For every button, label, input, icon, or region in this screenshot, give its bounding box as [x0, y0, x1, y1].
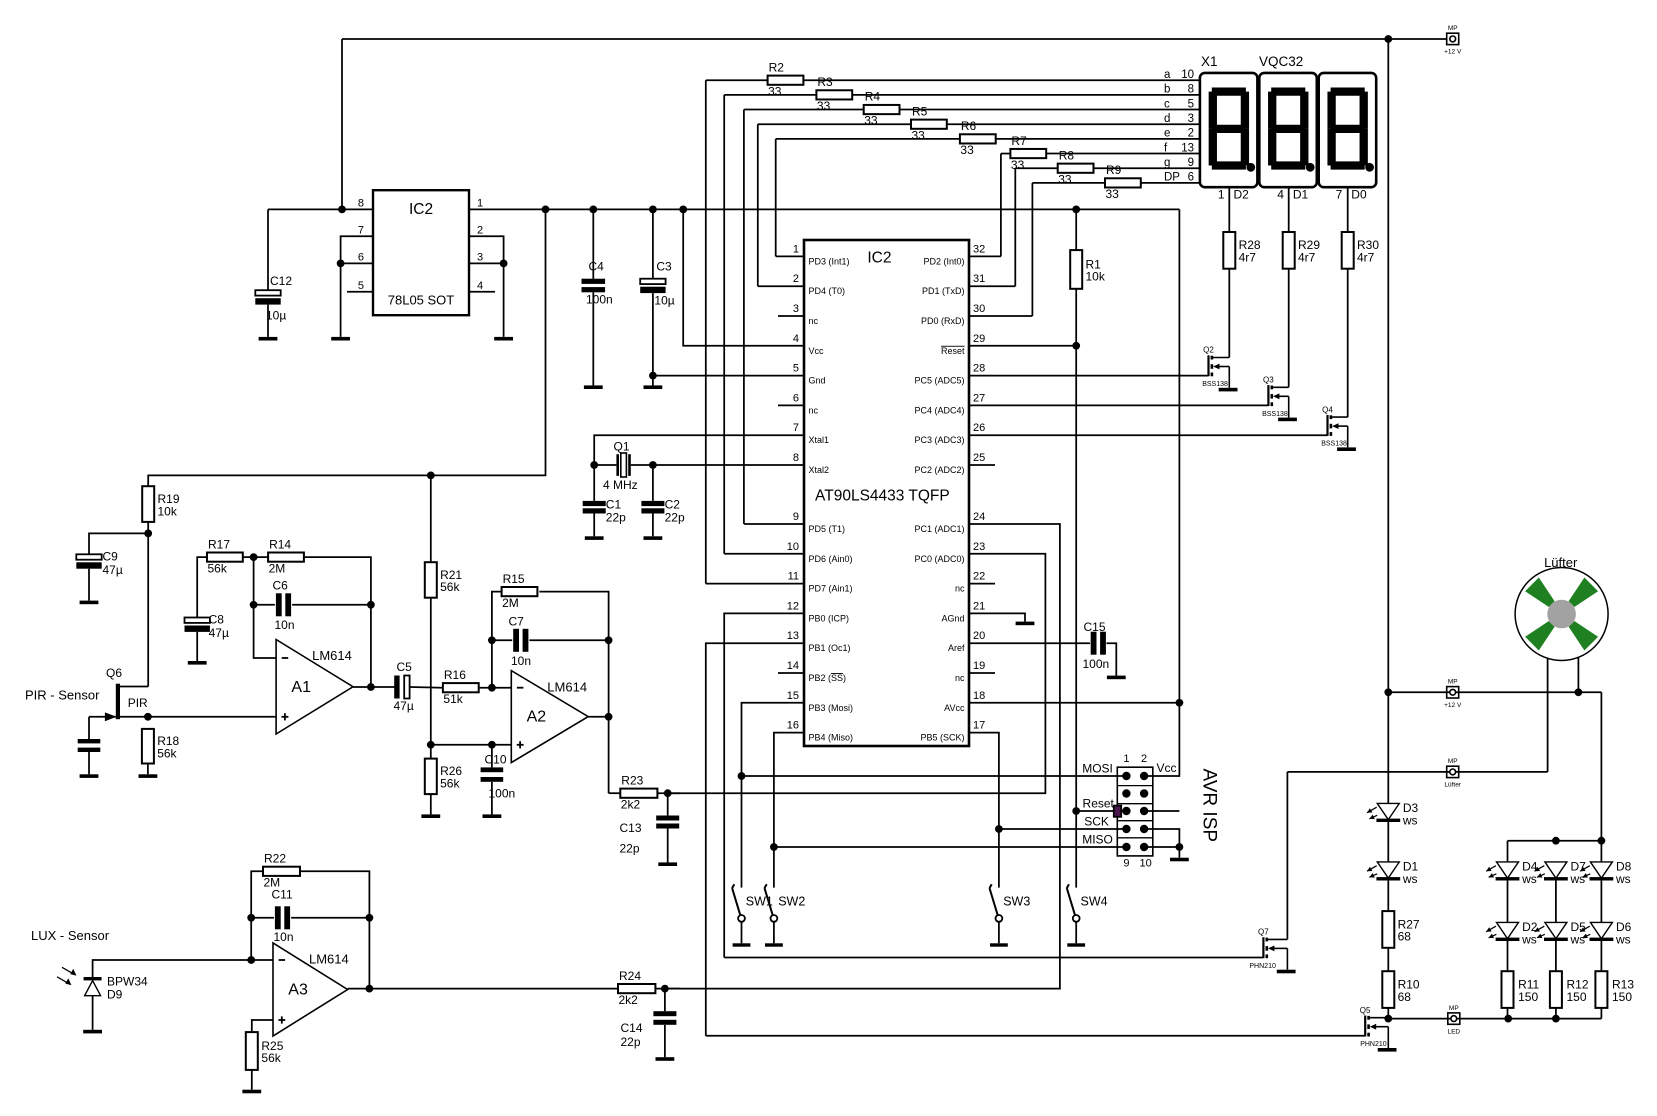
junction +12V bus / fan rail	[1384, 688, 1392, 696]
junction C7 left	[488, 636, 496, 644]
svg-text:PD6 (Ain0): PD6 (Ain0)	[809, 554, 853, 564]
svg-text:PB4 (Miso): PB4 (Miso)	[809, 733, 854, 743]
capacitor C1	[593, 465, 595, 501]
power marker MP +12 V (top right)	[1447, 33, 1459, 44]
ground C15	[1107, 676, 1126, 680]
svg-text:PHN210: PHN210	[1360, 1041, 1387, 1048]
svg-text:nc: nc	[809, 316, 819, 326]
resistor R18	[142, 729, 154, 764]
wire IC pin 27 PC4 to Q3 gate	[969, 404, 1268, 406]
svg-text:C13: C13	[620, 821, 642, 835]
diode D1	[1377, 862, 1399, 878]
transistor Q4 BSS138	[1326, 415, 1328, 436]
microcontroller IC2 AT90LS4433	[804, 240, 969, 746]
svg-text:7: 7	[793, 422, 799, 434]
resistor R30	[1342, 232, 1354, 269]
svg-text:ws: ws	[1402, 872, 1418, 886]
wire IC pin 28 PC5 to Q2 gate	[969, 375, 1209, 377]
wire Q6 source to A1 +	[118, 716, 276, 718]
junction R17/R14	[250, 553, 258, 561]
svg-text:17: 17	[973, 720, 985, 732]
wire Lüfter drive line	[1287, 771, 1547, 773]
svg-text:4: 4	[1277, 187, 1284, 201]
wire D4 anode stem	[1507, 841, 1509, 862]
svg-text:22p: 22p	[665, 511, 685, 525]
junction +5V rail to lower rail feed	[542, 206, 550, 214]
svg-text:C2: C2	[665, 497, 681, 511]
svg-text:PIR - Sensor: PIR - Sensor	[25, 687, 100, 702]
svg-text:LM614: LM614	[309, 952, 349, 967]
wire IC pin 6 nc stub	[778, 404, 804, 406]
svg-text:10: 10	[1181, 69, 1194, 81]
wire R22 feedback right	[300, 871, 369, 988]
svg-text:3: 3	[477, 252, 483, 264]
junction SCK on PB5 bus	[995, 825, 1003, 833]
wire IC pin 19 nc stub	[969, 672, 995, 674]
power marker MP LED	[1448, 1013, 1460, 1024]
wire ISP Vcc to +5V	[1144, 209, 1179, 776]
ground R26	[421, 814, 440, 818]
svg-text:C14: C14	[621, 1021, 643, 1035]
svg-text:Vcc: Vcc	[809, 346, 825, 356]
transistor Q3 BSS138	[1267, 385, 1269, 406]
resistor R25	[246, 1032, 258, 1070]
wire IC pin 10 PD6 to R3 bus	[724, 553, 804, 555]
junction C6 left	[250, 601, 258, 609]
svg-text:6: 6	[1188, 172, 1194, 184]
svg-text:4 MHz: 4 MHz	[603, 478, 638, 492]
svg-text:28: 28	[973, 363, 985, 375]
wire Q5 drain stub	[1387, 1017, 1389, 1020]
wire R6 to display	[996, 138, 1200, 140]
switch SW1	[732, 888, 740, 915]
svg-text:Q2: Q2	[1203, 346, 1214, 355]
svg-text:56k: 56k	[208, 561, 228, 575]
svg-text:5: 5	[1188, 98, 1194, 110]
wire R29 to Q3 drain	[1288, 269, 1290, 388]
svg-text:VQC32: VQC32	[1259, 54, 1303, 69]
svg-text:PD3 (Int1): PD3 (Int1)	[809, 256, 850, 266]
svg-text:Reset: Reset	[1083, 796, 1115, 810]
svg-text:PHN210: PHN210	[1249, 963, 1276, 970]
resistor R4	[864, 105, 900, 114]
svg-text:R17: R17	[208, 537, 230, 551]
junction MISO on PB4 bus	[770, 843, 778, 851]
wire reset mark to pin	[1121, 810, 1126, 812]
wire R28 to Q2 drain	[1228, 269, 1230, 358]
wire R5 left to bus	[758, 123, 911, 125]
svg-text:PD5 (T1): PD5 (T1)	[809, 524, 846, 534]
wire Xtal2 to crystal	[653, 464, 804, 466]
svg-text:56k: 56k	[261, 1051, 281, 1065]
svg-text:Gnd: Gnd	[809, 376, 826, 386]
diode D8	[1590, 862, 1612, 878]
svg-text:8: 8	[793, 452, 799, 464]
op-amp A2	[511, 671, 588, 763]
svg-text:ws: ws	[1615, 872, 1631, 886]
display digit D1	[1259, 73, 1317, 187]
junction regulator pins 2/3 ground	[500, 260, 508, 268]
svg-text:10n: 10n	[275, 618, 295, 632]
svg-text:10k: 10k	[1086, 270, 1106, 284]
capacitor C6	[276, 593, 282, 616]
wire C11 right	[291, 917, 369, 919]
svg-text:22p: 22p	[621, 1035, 641, 1049]
wire R24 right	[655, 988, 680, 990]
wire +12V right bus	[1387, 39, 1389, 803]
svg-text:6: 6	[358, 252, 364, 264]
svg-text:13: 13	[787, 630, 799, 642]
junction fan rail / fan lead	[1575, 688, 1583, 696]
wire IC pin 16 PB4 to SW2	[774, 733, 804, 888]
capacitor C8	[185, 618, 210, 623]
resistor R29	[1283, 232, 1295, 269]
wire regulator pin 3	[469, 262, 504, 264]
svg-text:19: 19	[973, 660, 985, 672]
svg-text:C15: C15	[1084, 620, 1106, 634]
svg-text:4r7: 4r7	[1357, 251, 1375, 265]
wire fan +12V rail	[1388, 691, 1601, 693]
wire IC pin 9 PD5 to R4 bus	[744, 523, 804, 525]
svg-text:PC2 (ADC2): PC2 (ADC2)	[914, 465, 964, 475]
svg-text:R5: R5	[912, 104, 928, 118]
ground PIR filter cap	[80, 774, 99, 778]
wire A3 output	[348, 988, 618, 990]
diode D2	[1497, 922, 1519, 938]
wire IC pin 18 AVcc	[969, 702, 1179, 704]
wire regulator input from +12V rail	[341, 39, 343, 209]
svg-text:X1: X1	[1201, 54, 1218, 69]
svg-text:Q1: Q1	[614, 440, 630, 454]
svg-text:e: e	[1164, 128, 1170, 140]
svg-text:R14: R14	[269, 537, 291, 551]
ground ISP	[1170, 858, 1189, 862]
junction anode rail D8	[1598, 837, 1606, 845]
junction C7 right	[605, 636, 613, 644]
wire IC pin 3 nc stub	[778, 315, 804, 317]
wire A3 non-inverting to R25	[252, 1020, 273, 1032]
resistor R1	[1070, 250, 1082, 289]
svg-text:A2: A2	[527, 709, 547, 726]
transistor Q7 PHN210	[1262, 937, 1264, 958]
svg-text:LUX - Sensor: LUX - Sensor	[31, 928, 110, 943]
svg-text:A1: A1	[291, 679, 311, 696]
wire D8 to D6	[1600, 879, 1602, 923]
svg-text:8: 8	[358, 198, 364, 210]
resistor R13	[1595, 971, 1607, 1008]
svg-text:PC1 (ADC1): PC1 (ADC1)	[914, 524, 964, 534]
switch SW3	[990, 888, 998, 915]
ground C3	[644, 385, 663, 389]
switch SW2	[765, 888, 773, 915]
resistor R10	[1382, 971, 1394, 1008]
wire IC pin 13 PB1 bus down	[706, 643, 804, 1036]
ground D9	[83, 1030, 102, 1034]
power marker MP +12 V (fan rail)	[1447, 687, 1459, 698]
svg-text:78L05 SOT: 78L05 SOT	[388, 292, 455, 307]
wire R21 to R26	[430, 598, 432, 759]
svg-text:9: 9	[1188, 157, 1194, 169]
wire C6 right	[292, 604, 371, 606]
wire +5V rail from regulator pin 1	[469, 208, 1179, 210]
resistor R5	[911, 120, 947, 129]
svg-text:25: 25	[973, 452, 985, 464]
svg-text:C1: C1	[606, 497, 622, 511]
junction R21/R26/A2+	[427, 741, 435, 749]
svg-text:24: 24	[973, 511, 985, 523]
svg-text:MP: MP	[1449, 1005, 1459, 1012]
svg-text:1: 1	[1218, 187, 1225, 201]
wire R3 bus vertical	[723, 95, 725, 554]
capacitor C9	[76, 554, 101, 559]
wire LED cathode rail	[1388, 1018, 1601, 1020]
junction MOSI on PB3 bus	[738, 772, 746, 780]
wire LED anode rail	[1508, 840, 1602, 842]
wire R21 top	[430, 475, 432, 562]
svg-text:150: 150	[1612, 990, 1632, 1004]
svg-text:R4: R4	[865, 90, 881, 104]
wire regulator pin 7 to ground	[341, 236, 373, 337]
svg-text:a: a	[1164, 69, 1171, 81]
svg-text:PB1 (Oc1): PB1 (Oc1)	[809, 643, 851, 653]
svg-text:PB5 (SCK): PB5 (SCK)	[920, 733, 964, 743]
svg-text:ws: ws	[1521, 932, 1537, 946]
junction +5V rail at C4	[589, 206, 597, 214]
svg-text:Lüfter: Lüfter	[1544, 555, 1578, 570]
svg-text:C9: C9	[103, 549, 119, 563]
junction Q5 drain / LED rail	[1384, 1015, 1392, 1023]
svg-text:Vcc: Vcc	[1157, 761, 1177, 775]
svg-text:68: 68	[1398, 930, 1412, 944]
svg-text:SW2: SW2	[778, 895, 805, 909]
svg-text:1: 1	[1123, 753, 1129, 765]
capacitor C15	[1091, 632, 1097, 655]
svg-text:PD4 (T0): PD4 (T0)	[809, 286, 846, 296]
svg-text:AGnd: AGnd	[941, 613, 964, 623]
capacitor C11	[275, 906, 281, 929]
svg-text:10n: 10n	[274, 930, 294, 944]
svg-text:Aref: Aref	[948, 643, 965, 653]
junction ISP ground tee	[1176, 843, 1184, 851]
svg-text:4: 4	[793, 333, 799, 345]
junction analog rail at R21	[427, 472, 435, 480]
wire D1 to R27	[1387, 879, 1389, 911]
svg-text:R2: R2	[769, 60, 785, 74]
diode D7	[1545, 862, 1567, 878]
junction regulator input node	[338, 206, 346, 214]
svg-text:47µ: 47µ	[209, 626, 229, 640]
svg-text:DP: DP	[1164, 172, 1180, 184]
svg-text:Q6: Q6	[106, 666, 122, 680]
wire R1 top	[1075, 209, 1077, 250]
wire R15 feedback left	[492, 592, 502, 688]
junction top rail / right +12V bus	[1384, 35, 1392, 43]
wire R8 to display	[1094, 167, 1200, 169]
photodiode D9 BPW34	[84, 977, 102, 980]
ground regulator right	[494, 337, 513, 341]
svg-text:MP: MP	[1448, 25, 1458, 32]
capacitor C13	[667, 793, 669, 815]
ground R18	[139, 774, 158, 778]
wire R9 left to bus	[1032, 182, 1105, 184]
svg-text:Reset: Reset	[941, 346, 965, 356]
transistor Q6 PIR	[116, 684, 120, 720]
svg-text:29: 29	[973, 333, 985, 345]
ground AGnd	[1016, 622, 1035, 626]
wire C11 left	[251, 917, 274, 919]
wire R6 left to bus	[776, 138, 960, 140]
display digit D2	[1200, 73, 1258, 187]
crystal Q1	[594, 464, 616, 466]
svg-text:+12 V: +12 V	[1444, 702, 1462, 709]
svg-text:R6: R6	[961, 119, 977, 133]
wire display common D0	[1347, 187, 1349, 232]
wire R26 bottom	[430, 794, 432, 814]
junction LED rail R11	[1504, 1015, 1512, 1023]
ground C8	[188, 661, 207, 665]
resistor R7	[1010, 149, 1046, 158]
svg-text:C10: C10	[485, 752, 507, 766]
wire R16 right	[479, 687, 512, 689]
wire IC pin 23 PC0 to R23 node	[668, 554, 1046, 793]
wire R4 bus vertical	[743, 110, 745, 524]
wire R7 left to bus	[1001, 153, 1011, 155]
svg-text:Q3: Q3	[1263, 376, 1274, 385]
ground C10	[483, 814, 502, 818]
wire PIR cap branch	[88, 717, 90, 739]
wire IC pin 22 nc stub	[969, 583, 995, 585]
svg-text:PC4 (ADC4): PC4 (ADC4)	[914, 405, 964, 415]
svg-text:11: 11	[788, 571, 799, 583]
resistor R14	[268, 553, 304, 562]
svg-text:26: 26	[973, 422, 985, 434]
wire R8 left to bus	[1015, 167, 1057, 169]
svg-text:2: 2	[1188, 128, 1194, 140]
svg-text:14: 14	[787, 660, 799, 672]
junction C11 left	[247, 914, 255, 922]
resistor R21	[425, 562, 437, 598]
svg-text:PC5 (ADC5): PC5 (ADC5)	[914, 376, 964, 386]
svg-text:3: 3	[793, 303, 799, 315]
svg-text:2M: 2M	[502, 596, 519, 610]
svg-text:4: 4	[477, 280, 483, 292]
junction AVcc / +5V bus	[1176, 699, 1184, 707]
wire R11 to LED rail	[1507, 1008, 1509, 1019]
resistor R22	[263, 867, 300, 876]
svg-text:21: 21	[973, 600, 985, 612]
svg-text:10k: 10k	[158, 504, 178, 518]
svg-text:33: 33	[1106, 187, 1120, 201]
svg-text:MP: MP	[1448, 679, 1458, 686]
wire regulator pin 4 stub	[469, 291, 495, 293]
capacitor C5	[394, 676, 399, 699]
wire ISP reset right stub	[1144, 810, 1179, 812]
wire Xtal1 to crystal	[594, 435, 804, 465]
ground C2	[644, 536, 663, 540]
wire R22 feedback left	[251, 871, 263, 960]
svg-text:c: c	[1164, 98, 1170, 110]
junction A3 output feedback	[366, 985, 374, 993]
svg-text:A3: A3	[288, 982, 308, 999]
svg-text:PIR: PIR	[128, 696, 148, 710]
wire IC pin 1 PD3	[776, 255, 804, 257]
svg-text:2: 2	[793, 273, 799, 285]
resistor R11	[1502, 971, 1514, 1008]
wire +12V top rail	[342, 38, 1447, 40]
svg-text:15: 15	[787, 690, 799, 702]
svg-text:33: 33	[912, 128, 926, 142]
wire R2 to display	[803, 79, 1200, 81]
svg-text:1: 1	[477, 198, 483, 210]
wire R5 to display	[947, 123, 1200, 125]
svg-text:MOSI: MOSI	[1082, 761, 1113, 775]
svg-text:b: b	[1164, 84, 1170, 96]
svg-text:PB2 (SS): PB2 (SS)	[809, 673, 847, 683]
ground R25	[242, 1090, 261, 1094]
svg-text:32: 32	[973, 243, 985, 255]
svg-text:6: 6	[793, 392, 799, 404]
svg-text:Q4: Q4	[1322, 405, 1333, 414]
fan Lüfter	[1515, 568, 1608, 661]
junction R16 / A2 inverting	[488, 684, 496, 692]
resistor R26	[425, 759, 437, 795]
svg-text:R7: R7	[1011, 134, 1027, 148]
junction regulator pins 6/7 ground	[337, 260, 345, 268]
wire D2 to R11	[1507, 939, 1509, 971]
svg-text:9: 9	[793, 511, 799, 523]
wire regulator pin 2 to ground	[469, 236, 504, 337]
capacitor PIR filter	[78, 739, 101, 743]
svg-text:2: 2	[1141, 753, 1147, 765]
wire ISP ground stem	[1178, 847, 1180, 858]
svg-text:R22: R22	[264, 852, 286, 866]
svg-text:D9: D9	[107, 988, 123, 1002]
wire D3 to D1	[1387, 820, 1389, 862]
svg-text:d: d	[1164, 113, 1170, 125]
svg-text:10: 10	[1139, 858, 1151, 870]
display digit D0	[1319, 73, 1377, 187]
wire R18 bottom	[147, 764, 149, 775]
svg-text:18: 18	[973, 690, 985, 702]
svg-text:7: 7	[1336, 187, 1343, 201]
svg-text:MISO: MISO	[1082, 832, 1113, 846]
junction A3 inverting / feedback	[247, 956, 255, 964]
wire R3 left to bus	[724, 94, 816, 96]
wire R7 to display	[1046, 153, 1200, 155]
transistor Q2 BSS138	[1207, 355, 1209, 376]
svg-text:BSS138: BSS138	[1262, 411, 1288, 418]
svg-text:7: 7	[358, 225, 364, 237]
junction +5V rail at C3	[649, 206, 657, 214]
svg-text:C11: C11	[272, 888, 293, 902]
transistor Q5 PHN210	[1364, 1016, 1366, 1037]
resistor R16	[443, 683, 479, 692]
wire R23 right	[657, 792, 680, 794]
svg-text:PD2 (Int0): PD2 (Int0)	[923, 256, 964, 266]
wire fan lead right	[1577, 658, 1579, 693]
wire IC pin 21 AGnd	[969, 613, 1025, 621]
op-amp A1	[276, 640, 353, 735]
svg-text:2k2: 2k2	[621, 797, 641, 811]
svg-text:30: 30	[973, 303, 985, 315]
svg-text:C6: C6	[273, 579, 289, 593]
resistor R8	[1058, 164, 1094, 173]
svg-text:R8: R8	[1059, 148, 1075, 162]
ground regulator left	[331, 337, 350, 341]
svg-text:+12 V: +12 V	[1444, 49, 1462, 56]
svg-text:D1: D1	[1293, 187, 1309, 201]
capacitor C3	[652, 209, 654, 278]
